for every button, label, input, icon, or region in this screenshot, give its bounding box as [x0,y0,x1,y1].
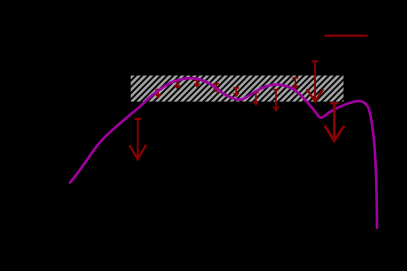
legend line [325,35,368,37]
long arrow L3 (right, below band) [324,103,345,141]
small arrow A1 [155,90,161,99]
small arrow A4 [213,84,219,93]
hatched band [131,76,344,102]
purple curve [70,78,377,227]
small arrow A8 [292,78,298,90]
small arrow A3 [194,80,200,87]
small arrow A7 [273,90,279,111]
small arrow A5 [233,88,239,97]
long arrow L1 (left, below band) [129,119,147,160]
long arrow L2 (middle, into band) [306,61,323,101]
small arrow A2 [174,82,180,89]
small arrow A6 [253,92,259,105]
